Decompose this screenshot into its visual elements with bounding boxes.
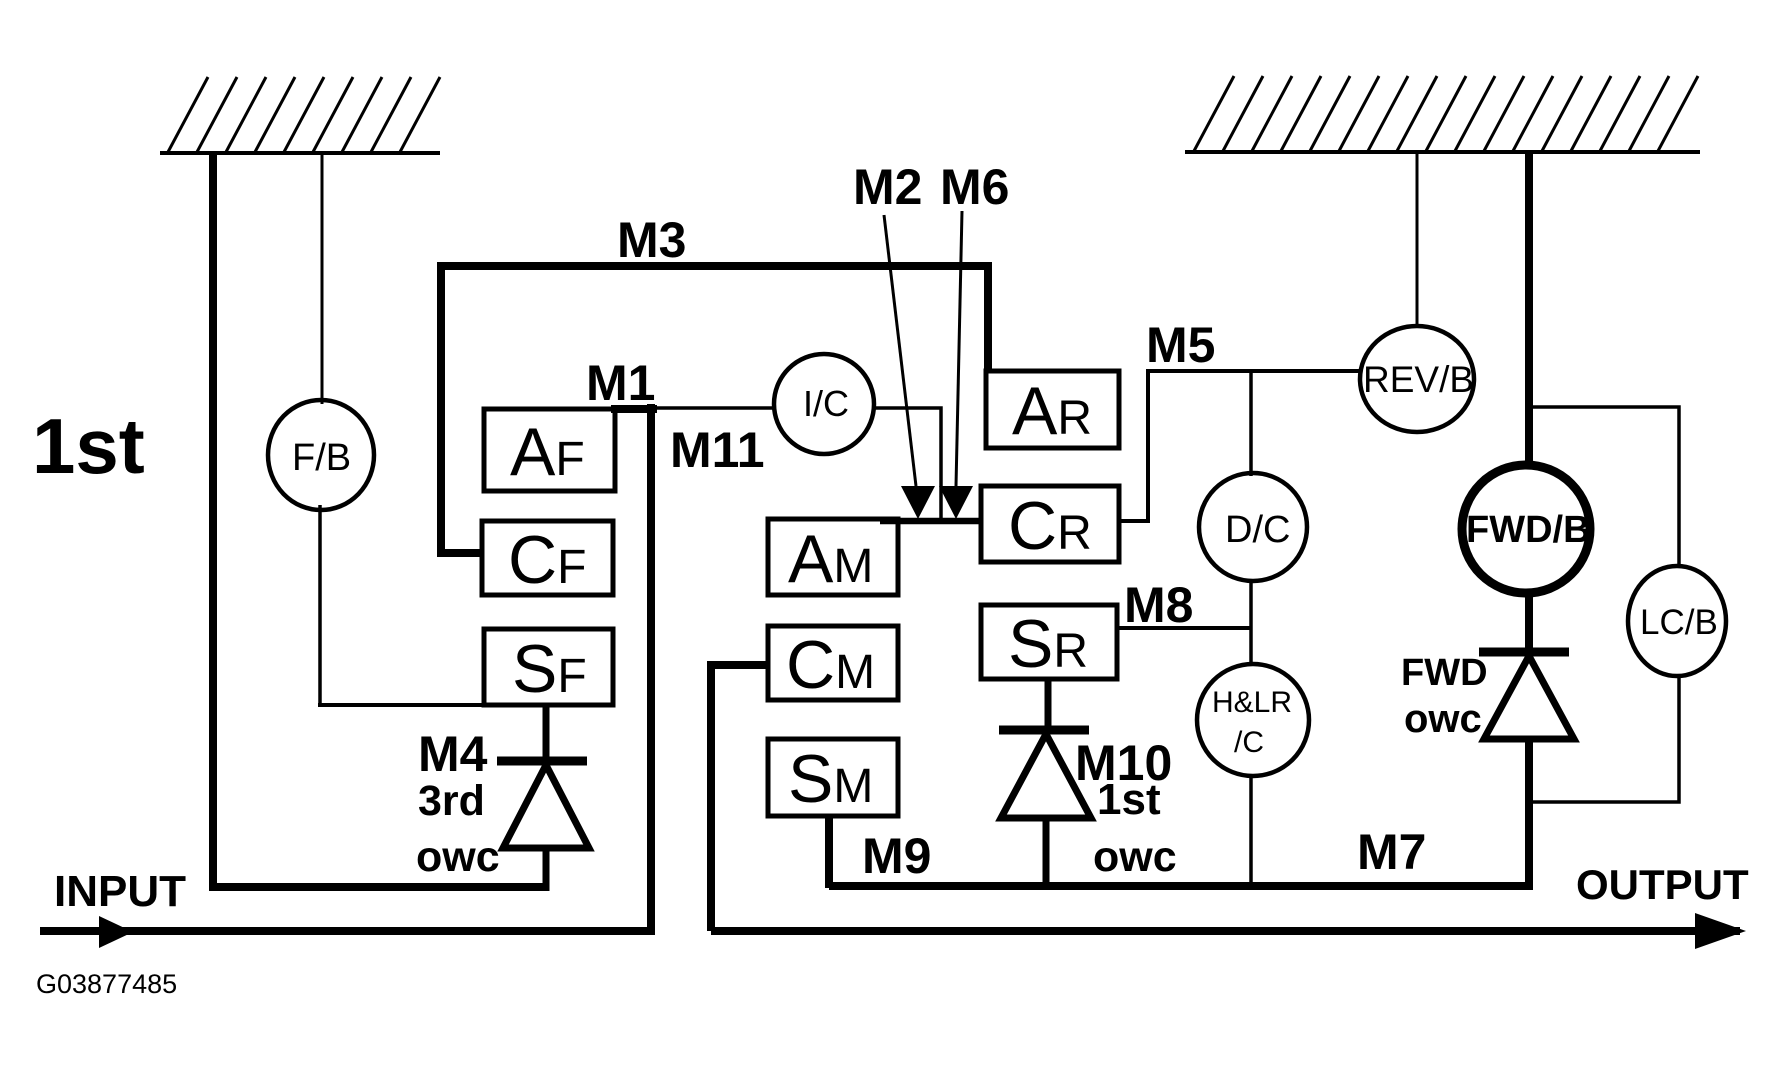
clutch D/C [1199, 473, 1307, 581]
label owc [416, 833, 500, 881]
label M4 [418, 726, 488, 782]
label FWD [1401, 652, 1488, 694]
svg-text:G03877485: G03877485 [36, 969, 177, 999]
svg-text:M8: M8 [1124, 577, 1193, 633]
wire M8 [1117, 626, 1251, 630]
svg-text:H&LR: H&LR [1212, 686, 1292, 719]
label 1st (gear) [32, 402, 145, 490]
wire REV/B anchor drop [1416, 152, 1419, 328]
svg-text:LC/B: LC/B [1640, 603, 1718, 642]
input arrow [40, 916, 654, 948]
svg-text:1st: 1st [1097, 775, 1161, 824]
wire LC/B bottom [1531, 676, 1679, 802]
box SM [768, 739, 898, 817]
wire M11 shaft vertical [647, 404, 655, 935]
leader M6 [939, 211, 973, 519]
wire input shaft to owc bottom [209, 883, 546, 891]
label M9 [862, 828, 931, 884]
svg-text:M5: M5 [1146, 317, 1215, 373]
label M10 [1075, 735, 1172, 791]
wire F/B anchor drop [321, 153, 324, 404]
label M8 [1124, 577, 1193, 633]
svg-text:INPUT: INPUT [54, 867, 186, 916]
svg-text:OUTPUT: OUTPUT [1576, 861, 1749, 908]
clutch I/C [774, 354, 874, 454]
label owc (1st) [1093, 833, 1177, 881]
svg-text:I/C: I/C [803, 383, 849, 424]
svg-text:M6: M6 [940, 159, 1009, 215]
label M3 [617, 212, 686, 268]
wire input shaft vertical [209, 153, 217, 891]
label owc (FWD) [1404, 697, 1482, 741]
svg-text:REV/B: REV/B [1363, 359, 1474, 400]
wire M3 bus [441, 266, 988, 553]
svg-text:M4: M4 [418, 726, 488, 782]
wire SR to 1st owc [1045, 679, 1052, 734]
one-way clutch 3rd owc (diode) [497, 761, 589, 891]
svg-text:/C: /C [1234, 726, 1264, 759]
label OUTPUT [1576, 861, 1749, 908]
wire LC/B branch [1529, 407, 1679, 568]
fixed housing ground (right) [1185, 76, 1700, 152]
band FWD/B [1462, 465, 1591, 593]
box CM [768, 626, 898, 703]
svg-text:owc: owc [1404, 697, 1482, 741]
fixed housing ground (left) [160, 77, 440, 153]
svg-text:D/C: D/C [1225, 509, 1290, 551]
leader M2 [884, 215, 935, 519]
svg-text:M11: M11 [670, 422, 765, 478]
label M11 [670, 422, 765, 478]
wire CM bus to output line [711, 665, 768, 931]
svg-text:F/B: F/B [292, 437, 351, 479]
wire D/C drop [1249, 371, 1253, 476]
svg-text:owc: owc [1093, 833, 1177, 881]
label G03877485 [36, 969, 177, 999]
one-way clutch FWD owc (diode) [1479, 652, 1574, 890]
label M1 [586, 355, 655, 411]
wire SM drop [825, 816, 833, 888]
svg-text:M2: M2 [853, 159, 922, 215]
label INPUT [54, 867, 186, 916]
svg-text:M7: M7 [1357, 824, 1426, 880]
box AR [986, 371, 1119, 449]
svg-text:M9: M9 [862, 828, 931, 884]
clutch H&LR/C [1197, 664, 1309, 776]
box SR [981, 605, 1117, 682]
wire M5 [1119, 371, 1361, 521]
label M5 [1146, 317, 1215, 373]
svg-text:M1: M1 [586, 355, 655, 411]
label M2 [853, 159, 922, 215]
wire M7 bus [829, 882, 1533, 890]
node M1 bar [611, 405, 657, 413]
band REV/B [1360, 326, 1474, 432]
svg-text:owc: owc [416, 833, 500, 881]
wire FWD/B to owc [1525, 592, 1533, 654]
label M7 [1357, 824, 1426, 880]
wire I/C to junction [872, 408, 941, 519]
box CF [482, 521, 613, 598]
wire D/C to H&LR/C [1249, 580, 1253, 666]
wire SF to 3rd owc [543, 705, 550, 763]
label 1st (owc) [1097, 775, 1161, 824]
wire output shaft anchor [1525, 152, 1533, 466]
wire H&LR/C drop [1249, 776, 1253, 888]
svg-text:3rd: 3rd [418, 777, 485, 825]
output arrow [711, 913, 1746, 949]
one-way clutch 1st owc (diode) [999, 730, 1091, 890]
box CR [981, 486, 1119, 564]
box SF [484, 629, 613, 707]
box AF [484, 409, 615, 491]
label 3rd [418, 777, 485, 825]
band F/B [268, 400, 374, 510]
node junction bar [880, 518, 983, 525]
wire M1 to I/C [655, 406, 776, 410]
label M6 [940, 159, 1009, 215]
box AM [768, 519, 898, 597]
svg-text:M3: M3 [617, 212, 686, 268]
band LC/B [1628, 566, 1726, 676]
svg-text:FWD: FWD [1401, 652, 1488, 694]
svg-text:FWD/B: FWD/B [1466, 509, 1591, 551]
wire F/B to SF [318, 505, 484, 705]
svg-text:1st: 1st [32, 402, 145, 490]
